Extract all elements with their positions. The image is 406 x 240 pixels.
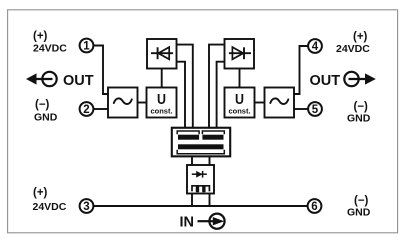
wire transformer to oscillator box (right pin) (209, 156, 211, 165)
svg-text:4: 4 (312, 41, 319, 53)
svg-text:OUT: OUT (310, 73, 341, 89)
oscillator / rectifier box (187, 165, 214, 194)
svg-text:24VDC: 24VDC (336, 43, 370, 55)
svg-text:(−): (−) (35, 99, 50, 111)
svg-text:GND: GND (347, 112, 371, 124)
label -GND (terminal 5) (347, 101, 371, 124)
svg-text:(+): (+) (33, 187, 48, 199)
wire oscillator box to bottom bus (right pin) (209, 194, 211, 207)
U const box left (147, 88, 177, 118)
wire left diode box to transformer (inner) (177, 62, 186, 128)
label +24VDC (terminal 1) (33, 31, 67, 55)
wire right U const box to right AC box (255, 102, 265, 104)
wire left AC box to left U const box (138, 102, 147, 104)
transformer T1 (172, 128, 230, 157)
svg-text:2: 2 (83, 104, 89, 116)
label +24VDC (terminal 4) (336, 31, 370, 55)
terminal 3 (80, 199, 94, 213)
svg-text:const.: const. (150, 106, 172, 115)
wire right diode box to transformer (inner) (217, 62, 225, 128)
wire terminal1 to left AC box (94, 46, 108, 95)
svg-text:GND: GND (34, 112, 58, 124)
terminal 5 (308, 102, 322, 116)
svg-text:(+): (+) (33, 31, 48, 43)
svg-text:const.: const. (228, 106, 250, 115)
wire left diode box to transformer (outer) (177, 45, 193, 128)
diode box left (147, 39, 177, 69)
wire terminal4 to right AC box (294, 46, 308, 94)
terminal 6 (308, 199, 322, 213)
label -GND (terminal 6) (347, 195, 371, 219)
svg-text:(−): (−) (354, 195, 369, 207)
svg-text:24VDC: 24VDC (33, 43, 67, 55)
svg-text:OUT: OUT (63, 73, 94, 89)
svg-text:(−): (−) (354, 101, 369, 113)
svg-text:1: 1 (83, 41, 90, 53)
IN arrow symbol (198, 214, 225, 229)
OUT arrow symbol right (344, 72, 376, 86)
svg-text:24VDC: 24VDC (33, 201, 67, 213)
svg-text:3: 3 (83, 201, 89, 213)
wire terminal2 to left AC box (94, 108, 108, 110)
terminal 2 (80, 102, 94, 116)
AC chopper box left (108, 88, 138, 118)
U const box right (225, 88, 255, 118)
terminal 4 (308, 39, 322, 53)
terminal 1 (80, 39, 94, 53)
label +24VDC (terminal 3) (33, 187, 67, 213)
wire right diode box to right U const box (239, 69, 241, 88)
OUT arrow symbol left (26, 72, 57, 86)
AC chopper box right (265, 88, 295, 118)
svg-text:GND: GND (347, 207, 371, 219)
svg-text:5: 5 (312, 104, 319, 116)
svg-text:IN: IN (180, 215, 195, 231)
svg-text:6: 6 (311, 201, 317, 213)
wire right diode box to transformer (outer) (209, 45, 225, 128)
wire oscillator box to bottom bus (left pin) (191, 194, 193, 207)
label -GND (terminal 2) (34, 99, 58, 124)
svg-text:(+): (+) (353, 31, 368, 43)
wire terminal5 to right AC box (294, 108, 308, 110)
wire transformer to oscillator box (left pin) (191, 156, 193, 165)
wire left diode box to left U const box (161, 69, 163, 88)
diode box right (225, 39, 255, 69)
wire bottom bus terminal3 to terminal6 (94, 205, 308, 207)
